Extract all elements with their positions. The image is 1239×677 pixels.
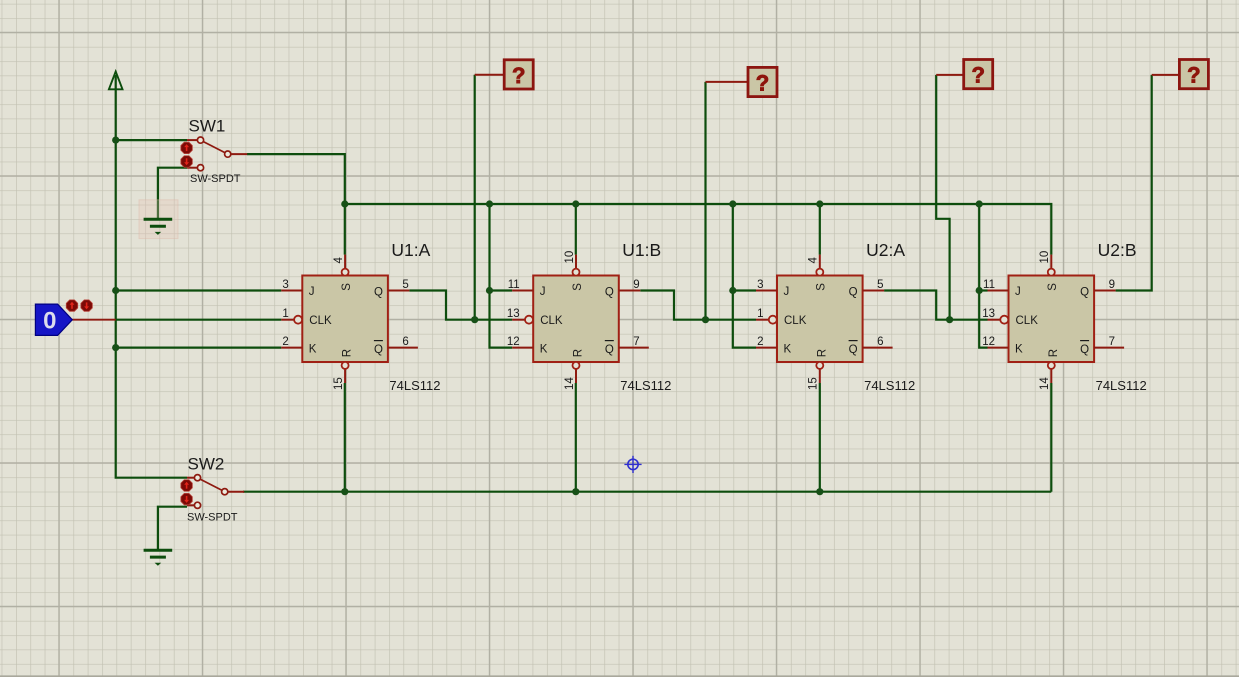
wire: U2:B Q up to probe 4 — [1116, 75, 1152, 291]
svg-text:12: 12 — [982, 336, 995, 348]
svg-text:R: R — [573, 349, 585, 357]
svg-text:S: S — [1047, 283, 1059, 291]
svg-text:4: 4 — [808, 257, 820, 264]
svg-text:K: K — [540, 344, 548, 356]
pin 15 (R, active low) — [819, 368, 821, 383]
wire: U1:B J pin 11 tap — [490, 289, 513, 291]
pin 3 (J) — [281, 290, 302, 292]
svg-text:SW-SPDT: SW-SPDT — [190, 173, 241, 185]
svg-text:4: 4 — [333, 257, 345, 264]
junction: top bus / U1:B S — [572, 200, 579, 207]
svg-text:15: 15 — [808, 377, 820, 390]
wire: top bus drop to U2:A J/K pins — [733, 204, 756, 348]
svg-text:12: 12 — [507, 336, 520, 348]
svg-text:74LS112: 74LS112 — [389, 378, 440, 393]
svg-text:3: 3 — [757, 279, 763, 291]
wire: probe 3 down to U2:A Q net (with jog) — [936, 75, 949, 320]
svg-text:9: 9 — [633, 279, 639, 291]
pin 4 (S, active low) — [819, 255, 821, 269]
wire: SW2 lower throw to ground — [158, 507, 187, 550]
wire: SW1 common up over to top bus / U1:A S pin — [247, 154, 345, 255]
svg-text:SW-SPDT: SW-SPDT — [187, 512, 238, 524]
svg-text:SW2: SW2 — [188, 455, 225, 474]
svg-text:Q: Q — [605, 287, 614, 299]
svg-text:R: R — [816, 349, 828, 357]
junction: rail / SW1 pole — [112, 137, 119, 144]
wire: U1:B Q to U2:A CLK — [640, 291, 756, 320]
junction: top bus / U1:B J-K drop — [486, 200, 493, 207]
junction: probe1 / CLK2 net — [471, 316, 478, 323]
body — [777, 276, 863, 363]
svg-text:14: 14 — [1039, 377, 1051, 390]
svg-text:?: ? — [756, 70, 769, 95]
svg-text:10: 10 — [564, 251, 576, 264]
body — [302, 276, 388, 363]
svg-text:S: S — [816, 283, 828, 291]
svg-text:2: 2 — [282, 336, 288, 348]
ground (below SW1) — [144, 219, 173, 235]
svg-text:U2:A: U2:A — [866, 240, 905, 260]
pin 2 (K) — [756, 347, 777, 349]
svg-text:J: J — [540, 286, 546, 298]
svg-text:7: 7 — [1109, 336, 1115, 348]
svg-text:13: 13 — [507, 308, 520, 320]
wire: top bus drop to U1:B S pin 10 — [575, 204, 577, 255]
svg-text:Q: Q — [1080, 344, 1089, 356]
svg-text:11: 11 — [983, 279, 995, 291]
wire: top bus (SET net) — [345, 204, 1052, 255]
svg-text:Q: Q — [374, 344, 383, 356]
svg-text:S: S — [572, 283, 584, 291]
pin 10 (S, active low) — [575, 255, 577, 269]
svg-text:S: S — [341, 283, 353, 291]
svg-text:5: 5 — [402, 279, 408, 291]
probe 2 (?) — [706, 67, 778, 96]
wire: probe 2 down to U1:B Q net — [704, 82, 706, 320]
wire: top bus drop to U2:A S pin 4 — [819, 204, 821, 255]
wire: U1:B R pin 14 down to bottom bus — [575, 383, 577, 492]
flip-flop U1:B (74LS112 JK) — [507, 240, 671, 393]
pin 5 (Q) — [863, 290, 885, 292]
logic state input "0" — [35, 304, 72, 335]
svg-text:?: ? — [1187, 63, 1200, 88]
wire: U2:A J pin 3 tap — [733, 289, 756, 291]
switch SW1 (SW-SPDT) — [181, 137, 247, 171]
pin 14 (R, active low) — [1050, 368, 1052, 383]
svg-text:?: ? — [971, 63, 984, 88]
pin 5 (Q) — [388, 290, 410, 292]
pin 10 (S, active low) — [1050, 255, 1052, 269]
logic state down button — [81, 300, 92, 311]
bottom window edge — [0, 675, 1239, 677]
svg-text:11: 11 — [508, 279, 520, 291]
wire: top bus drop to U2:B J/K pins — [979, 204, 987, 348]
logic state up button — [66, 300, 77, 311]
power rail wire (vertical, from power arrow down to SW2) — [116, 75, 187, 478]
svg-text:CLK: CLK — [309, 315, 332, 327]
selection highlight around ground 1 — [139, 200, 178, 239]
wire: rail to U1:A J pin 3 — [116, 289, 282, 291]
junction: top bus / U2:A S — [816, 200, 823, 207]
svg-text:J: J — [1015, 286, 1021, 298]
svg-text:Q: Q — [374, 287, 383, 299]
junction: U2:A J drop — [729, 287, 736, 294]
junction: rail / U1:A J — [112, 287, 119, 294]
wire: U1:A R pin 15 down to bottom bus — [344, 383, 346, 492]
pin 13 (CLK) — [988, 319, 1001, 321]
junction: top bus / U2:A J-K drop — [729, 200, 736, 207]
svg-text:3: 3 — [282, 279, 288, 291]
svg-text:CLK: CLK — [784, 315, 807, 327]
power symbol (up arrow) — [109, 72, 123, 90]
junction: probe2 / CLK3 net — [702, 316, 709, 323]
junction: bottom bus / U2:A R — [816, 488, 823, 495]
svg-text:14: 14 — [564, 377, 576, 390]
wire: top bus drop to U1:B J/K pins — [490, 204, 513, 348]
body — [533, 276, 619, 363]
junction: top bus / SW1+U1:A S — [341, 200, 348, 207]
svg-text:CLK: CLK — [540, 315, 563, 327]
svg-text:SW1: SW1 — [189, 117, 226, 136]
junction: bottom bus / U1:A R — [341, 488, 348, 495]
svg-text:R: R — [1048, 349, 1060, 357]
wire: U2:A Q to U2:B CLK — [884, 291, 987, 320]
svg-text:Q: Q — [605, 344, 614, 356]
flip-flop U2:A (74LS112 JK) — [756, 240, 915, 393]
svg-text:Q: Q — [849, 287, 858, 299]
svg-text:10: 10 — [1039, 251, 1051, 264]
svg-text:7: 7 — [633, 336, 639, 348]
pin 6 (Q bar) — [863, 347, 893, 349]
junction: U1:B J drop — [486, 287, 493, 294]
junction: top bus / U2:B J-K drop — [976, 200, 983, 207]
probe 4 (?) — [1152, 60, 1209, 89]
flip-flop U1:A (74LS112 JK) — [281, 240, 440, 393]
wire: logic state output to U1:A CLK (crosses rail) — [116, 319, 282, 321]
svg-text:CLK: CLK — [1016, 315, 1039, 327]
pin 1 (CLK) — [281, 319, 294, 321]
wire: SW1 lower throw to ground — [158, 168, 187, 219]
svg-text:U2:B: U2:B — [1098, 240, 1137, 260]
pin 9 (Q) — [619, 290, 641, 292]
pin 14 (R, active low) — [575, 368, 577, 383]
svg-text:?: ? — [512, 63, 525, 88]
pin 3 (J) — [756, 290, 777, 292]
svg-text:2: 2 — [757, 336, 763, 348]
svg-text:R: R — [342, 349, 354, 357]
svg-text:15: 15 — [333, 377, 345, 390]
svg-text:J: J — [309, 286, 315, 298]
wire: rail to U1:A K pin 2 — [116, 347, 282, 349]
wire: probe 1 down to U1:A Q net — [474, 75, 476, 320]
pin 11 (J) — [512, 290, 533, 292]
svg-text:1: 1 — [282, 308, 288, 320]
switch SW2 (SW-SPDT) — [181, 475, 244, 509]
svg-text:6: 6 — [877, 336, 883, 348]
pin 1 (CLK) — [756, 319, 769, 321]
svg-text:1: 1 — [757, 308, 763, 320]
pin 11 (J) — [988, 290, 1009, 292]
svg-text:J: J — [784, 286, 790, 298]
svg-text:9: 9 — [1109, 279, 1115, 291]
origin marker (blue crosshair) — [624, 456, 641, 473]
ground (below SW2) — [144, 550, 173, 566]
pin 12 (K) — [512, 347, 533, 349]
wire: U1:A Q to U1:B CLK — [409, 291, 512, 320]
svg-text:U1:B: U1:B — [622, 240, 661, 260]
wire: U2:B R pin 14 down to bottom bus — [1050, 383, 1052, 492]
probe 1 (?) — [475, 60, 534, 89]
svg-text:U1:A: U1:A — [391, 240, 430, 260]
svg-text:K: K — [784, 344, 792, 356]
pin 4 (S, active low) — [344, 255, 346, 269]
svg-text:74LS112: 74LS112 — [620, 378, 671, 393]
wire: bottom bus (RESET net from SW2) — [243, 491, 1051, 493]
svg-text:13: 13 — [982, 308, 995, 320]
pin 2 (K) — [281, 347, 302, 349]
svg-text:Q: Q — [849, 344, 858, 356]
svg-text:6: 6 — [402, 336, 408, 348]
wire: logic state 0 output (red) — [72, 319, 116, 321]
svg-text:5: 5 — [877, 279, 883, 291]
pin 7 (Q bar) — [619, 347, 649, 349]
wire: U2:B J pin 11 tap — [979, 289, 987, 291]
wire: U2:A R pin 15 down to bottom bus — [819, 383, 821, 492]
flip-flop U2:B (74LS112 JK) — [982, 240, 1146, 393]
probe 3 (?) — [936, 60, 993, 89]
svg-text:0: 0 — [43, 308, 56, 335]
pin 12 (K) — [988, 347, 1009, 349]
junction: U2:B J drop — [976, 287, 983, 294]
body — [1009, 276, 1095, 363]
junction: rail / U1:A K — [112, 344, 119, 351]
pin 6 (Q bar) — [388, 347, 418, 349]
junction: probe3 / CLK4 net — [946, 316, 953, 323]
svg-text:K: K — [1015, 344, 1023, 356]
svg-text:K: K — [309, 344, 317, 356]
pin 7 (Q bar) — [1094, 347, 1124, 349]
wire: rail tap to SW1 pole — [116, 139, 187, 141]
pin 9 (Q) — [1094, 290, 1116, 292]
svg-text:74LS112: 74LS112 — [1096, 378, 1147, 393]
junction: bottom bus / U1:B R — [572, 488, 579, 495]
pin 15 (R, active low) — [344, 368, 346, 383]
pin 13 (CLK) — [512, 319, 525, 321]
svg-text:74LS112: 74LS112 — [864, 378, 915, 393]
svg-text:Q: Q — [1080, 287, 1089, 299]
